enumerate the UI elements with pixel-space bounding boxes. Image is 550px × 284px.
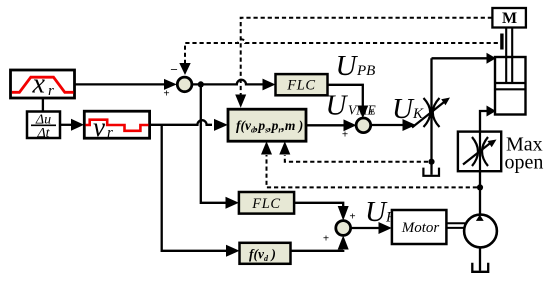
svg-text:U: U <box>365 196 388 228</box>
wire drain to tank T1 <box>430 162 432 175</box>
svg-text:Motor: Motor <box>401 220 440 236</box>
summing junction S2 <box>356 118 371 133</box>
svg-text:r: r <box>48 83 54 99</box>
wire S3 to Motor <box>350 222 391 234</box>
dashed feedback ps to f bottom <box>261 141 477 187</box>
wire du/dt to VR <box>60 119 84 131</box>
svg-text:–: – <box>170 62 178 76</box>
wire pump up to max-open valve <box>479 171 481 215</box>
svg-text:PB: PB <box>356 63 375 79</box>
block f(vd) <box>240 243 291 264</box>
svg-text:+: + <box>349 211 355 223</box>
wire f(vd) to S3 <box>291 233 349 251</box>
block FLC1 <box>276 74 328 95</box>
block du/dt <box>27 112 60 142</box>
dashed feedback pr to f bottom <box>279 141 428 161</box>
block VR velocity reference <box>84 111 149 142</box>
label U_F <box>365 196 396 228</box>
svg-text:VME: VME <box>348 103 376 118</box>
svg-text:M: M <box>502 10 517 27</box>
wire pump to tank T2 <box>479 247 481 271</box>
svg-text:x: x <box>32 69 46 100</box>
summing junction S3 <box>336 221 351 236</box>
wire S1 to FLC1 with hop over dashed <box>192 79 276 91</box>
block M mass <box>492 8 526 28</box>
wire S2 to throttle valve <box>370 119 415 131</box>
svg-text:open: open <box>505 152 544 174</box>
label Max open <box>505 134 544 174</box>
tank T2 <box>472 263 488 272</box>
svg-text:FLC: FLC <box>251 196 280 212</box>
svg-text:Δt: Δt <box>36 126 50 141</box>
svg-text:+: + <box>323 233 329 245</box>
svg-text:v: v <box>93 112 105 142</box>
svg-text:+: + <box>342 129 348 141</box>
wire valve to cylinder top port <box>432 53 497 64</box>
pump <box>464 215 497 248</box>
cylinder <box>495 57 526 115</box>
shaft Motor to pump <box>446 223 465 228</box>
wire max-open valve to cylinder bottom port <box>480 106 496 132</box>
svg-text:U: U <box>326 90 349 122</box>
wire XR to du/dt <box>42 98 44 111</box>
wire XR to sum S1 <box>75 79 177 100</box>
svg-text:U: U <box>392 93 415 125</box>
sensor bar on rod <box>500 34 503 50</box>
block FLC2 <box>239 192 294 214</box>
svg-text:+: + <box>163 88 169 100</box>
svg-text:U: U <box>336 50 359 82</box>
wire f to S2 <box>306 119 356 140</box>
block XR position reference <box>11 69 75 100</box>
label U_VME <box>326 90 377 122</box>
svg-text:f(vd ): f(vd ) <box>249 247 276 264</box>
tank T1 <box>423 168 439 176</box>
svg-text:f(vd,ps,pr,m ): f(vd,ps,pr,m ) <box>236 118 303 135</box>
block f(vd,ps,pr,m) <box>228 109 306 141</box>
max-open valve box <box>458 132 501 172</box>
throttle valve variable orifice <box>412 58 450 161</box>
svg-text:r: r <box>107 125 113 141</box>
node dot ps tap <box>477 184 483 190</box>
label U_K <box>392 93 424 125</box>
summing junction S1 <box>177 77 192 92</box>
block Motor <box>392 210 447 244</box>
error wire from node to FLC2 <box>201 84 239 208</box>
wire VR to f block with hop over error line <box>150 119 228 131</box>
dashed feedback m from M block to f top <box>235 18 492 108</box>
node dot on drain line <box>428 159 434 165</box>
svg-text:FLC: FLC <box>286 78 315 94</box>
dashed feedback x from sensor bar to S1, minus sign <box>170 39 501 75</box>
piston rod <box>506 27 512 83</box>
label U_PB <box>336 50 376 82</box>
wire FLC1 to S2 <box>328 85 375 119</box>
node dot after S1 <box>198 81 204 87</box>
wire VR branch to f(vd) <box>162 125 240 257</box>
wire FLC2 to S3 <box>294 203 356 223</box>
